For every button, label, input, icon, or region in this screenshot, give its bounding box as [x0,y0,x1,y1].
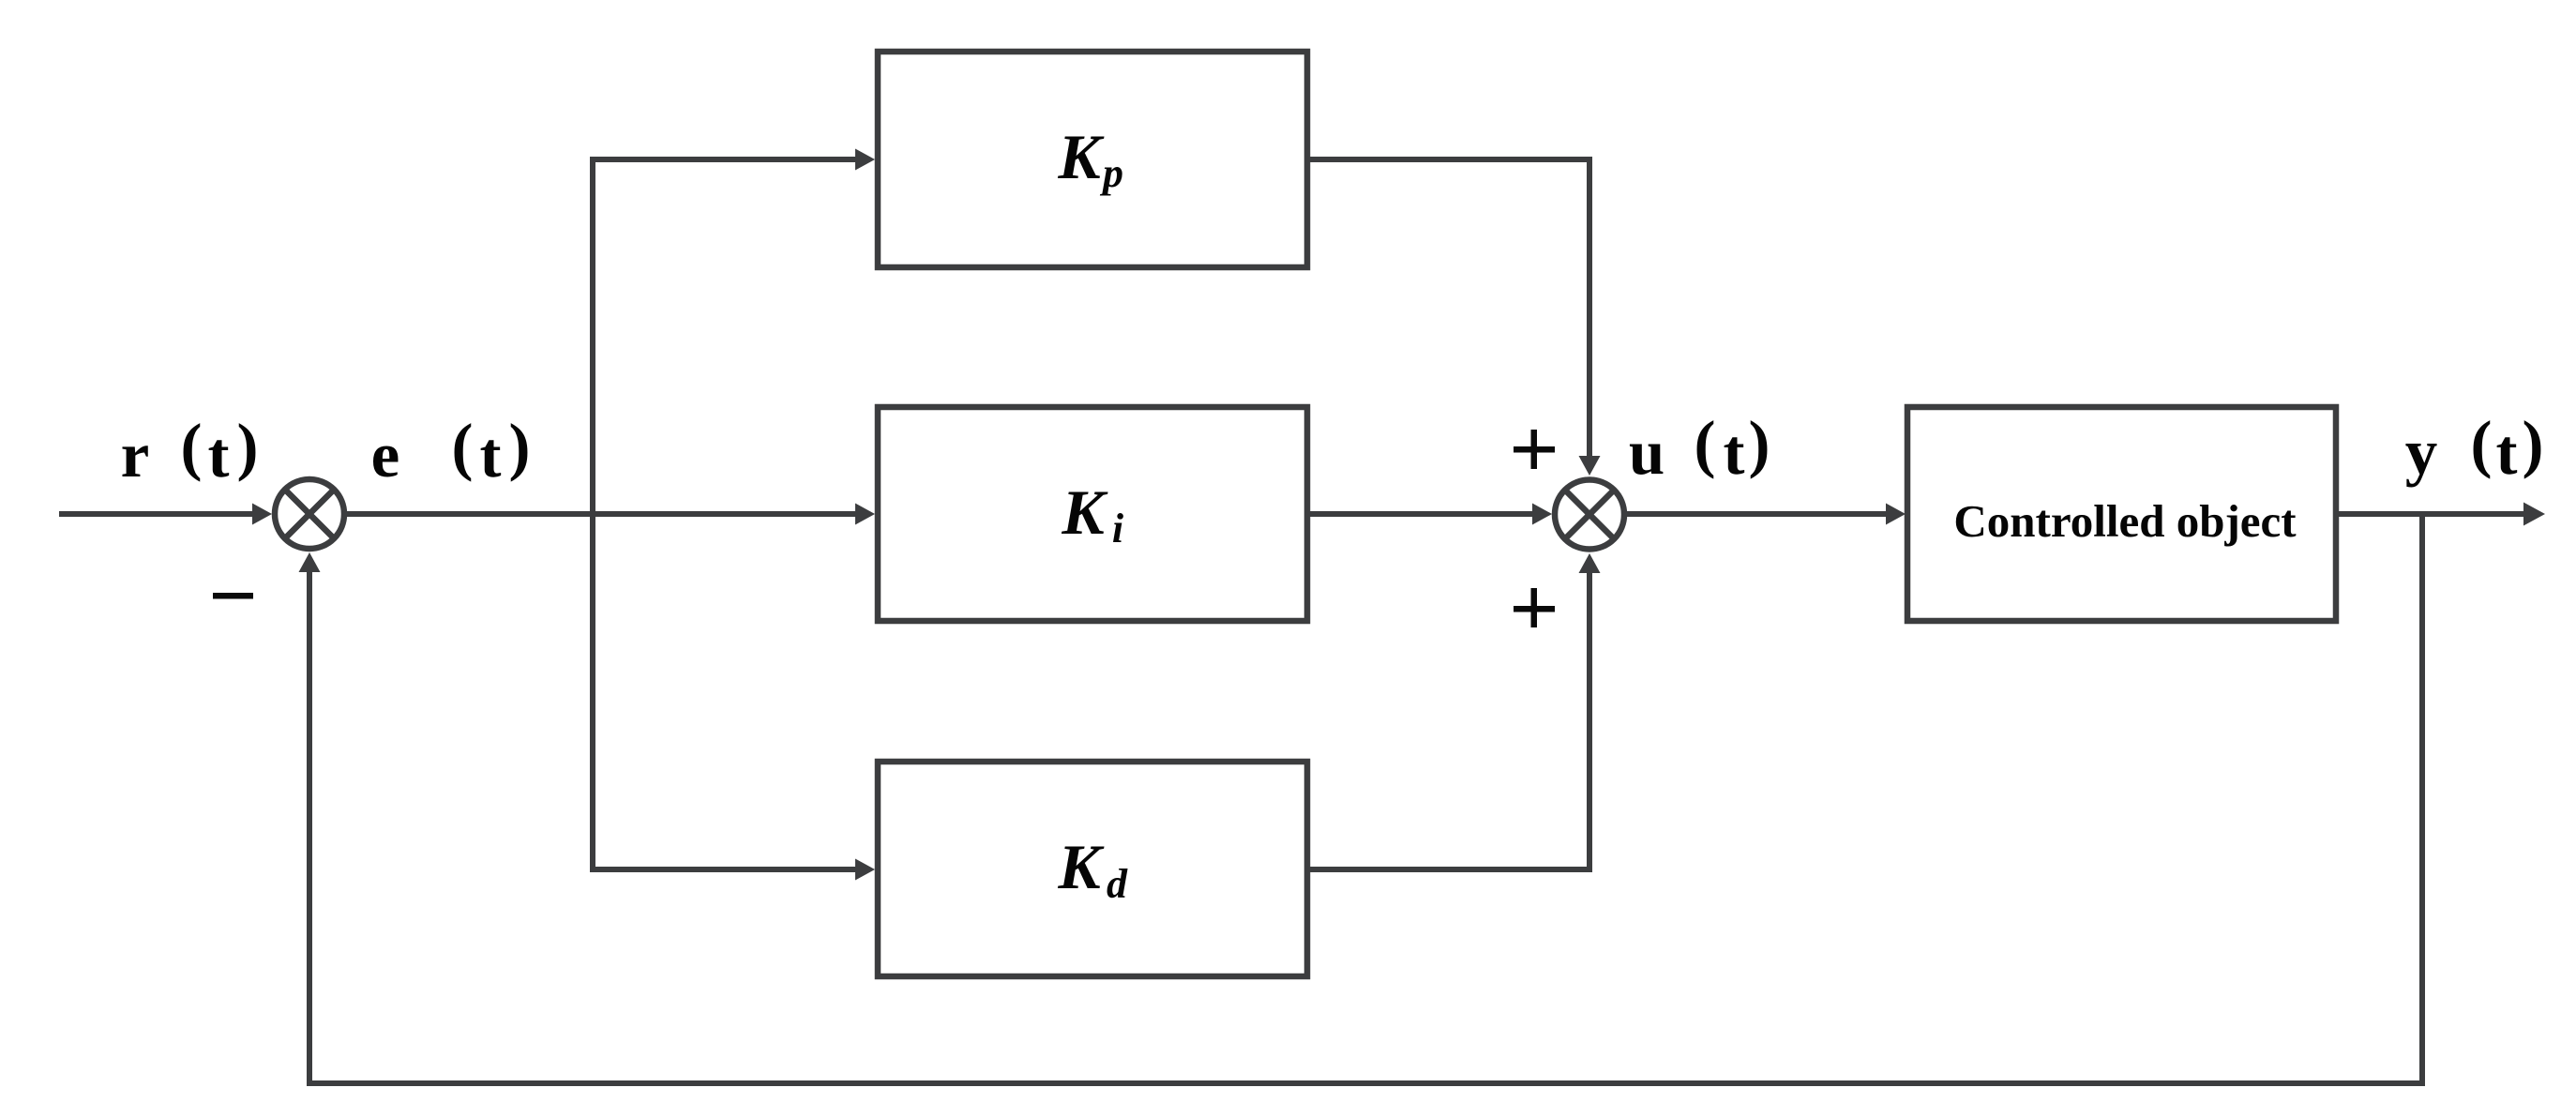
block Kd [878,762,1307,976]
arrowhead: feedback up into S1 [299,552,321,572]
plus sign for Kp input at S2 [1514,430,1555,469]
wire: branch to Kd [593,867,859,872]
svg-text:p: p [1099,150,1123,196]
wire: u(t) from S2 to Controlled object [1627,511,1890,517]
svg-text:e: e [371,419,400,491]
block Ki [878,407,1307,621]
svg-text:t: t [208,419,230,491]
svg-text:y: y [2405,416,2438,488]
arrowhead: into Kp [855,149,875,171]
label u(t) [1629,408,1770,488]
label Ki [1061,476,1124,551]
svg-text:Controlled object: Controlled object [1953,495,2297,547]
svg-text:(: ( [452,411,474,482]
minus sign at S1 feedback input [213,593,253,599]
svg-text:): ) [509,411,531,482]
label r(t) [121,411,259,491]
wire: y(t) output [2336,511,2526,517]
svg-text:t: t [2496,416,2518,488]
plus sign for Kd input at S2 [1514,588,1555,627]
wire: branch to Kp [593,157,859,162]
svg-text:i: i [1112,506,1124,551]
wire: e(t) from S1 to branch node [347,511,595,517]
wire: feedback vertical drop at right [2419,514,2425,1083]
block Controlled object [1907,407,2336,621]
svg-text:K: K [1057,121,1105,192]
wire: Ki output to S2 [1307,511,1535,517]
node: branch point (vertical distribution line) [590,157,595,872]
svg-text:d: d [1107,861,1128,907]
svg-text:(: ( [1695,408,1716,479]
block Kp [878,52,1307,267]
wire: main branch to Ki [593,511,859,517]
label Kd [1057,831,1128,907]
summing junction S2 [1555,480,1624,550]
wire: Kd output to S2 (under the bottom) [1307,571,1589,869]
arrowhead: into Ki [855,504,875,525]
svg-text:t: t [1724,416,1745,488]
svg-text:r: r [121,419,150,491]
arrowhead: output y(t) [2523,503,2545,526]
arrowhead: into Controlled object [1886,504,1906,525]
wire: input r(t) into summing junction S1 [59,511,255,517]
summing junction S1 [275,479,344,549]
svg-text:): ) [1749,408,1770,479]
svg-text:K: K [1057,831,1105,902]
label y(t) [2405,408,2544,488]
svg-text:(: ( [2471,408,2493,479]
svg-text:(: ( [181,411,203,482]
wire: Kp output to S2 (over the top) [1307,159,1589,459]
arrowhead: into Kd [855,859,875,881]
label Kp [1057,121,1123,196]
svg-text:): ) [237,411,259,482]
label e(t) [371,411,531,491]
wire: feedback bottom run [307,1080,2425,1086]
svg-text:K: K [1061,476,1108,548]
arrowhead: Ki output into S2 [1532,504,1552,525]
arrowhead: Kp output down into S2 [1579,456,1601,476]
wire: feedback rise to S1 [307,569,312,1086]
svg-text:u: u [1629,416,1665,488]
svg-text:t: t [480,419,502,491]
arrowhead: input into S1 [252,504,272,525]
arrowhead: Kd output up into S2 [1579,553,1601,573]
svg-text:): ) [2523,408,2544,479]
